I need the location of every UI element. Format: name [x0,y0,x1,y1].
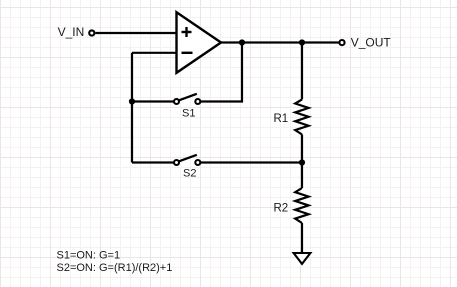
switch S2 [174,155,200,165]
wire feedback left vertical [131,53,133,163]
op-amp U1 [177,12,222,73]
wire S2 right contact to R divider node [201,161,302,163]
switch S1 [174,94,200,104]
wire junction to S1 left contact [132,100,174,102]
wire R2 bottom to ground [301,223,303,253]
terminal V_OUT [339,40,344,45]
wire op-amp output to V_OUT terminal [220,41,339,43]
wire V_IN to op-amp non-inverting input [95,32,176,34]
svg-text:S1: S1 [182,108,195,120]
wire S2 row left segment [132,161,174,163]
resistor R1 [295,99,308,134]
wire inverting input [132,52,177,54]
wire R1 bottom to divider node [301,135,303,163]
terminal V_IN [89,30,94,35]
svg-text:R1: R1 [274,113,289,125]
junction node feedback/S1 [129,98,135,104]
svg-text:S2=ON: G=(R1)/(R2)+1: S2=ON: G=(R1)/(R2)+1 [57,262,173,274]
wire output node down to R1 [301,43,303,100]
junction output node at op-amp output [239,39,245,45]
resistor R2 [295,188,308,223]
junction R1 top node on output wire [299,39,305,45]
svg-text:R2: R2 [274,203,289,215]
svg-text:S1=ON: G=1: S1=ON: G=1 [57,250,121,262]
wire S1 right contact to output node [201,43,242,102]
svg-text:V_IN: V_IN [58,25,85,39]
svg-text:V_OUT: V_OUT [351,36,392,50]
wire divider node to R2 [301,163,303,189]
svg-text:S2: S2 [183,168,196,180]
ground [294,253,311,264]
junction divider node [299,159,305,165]
